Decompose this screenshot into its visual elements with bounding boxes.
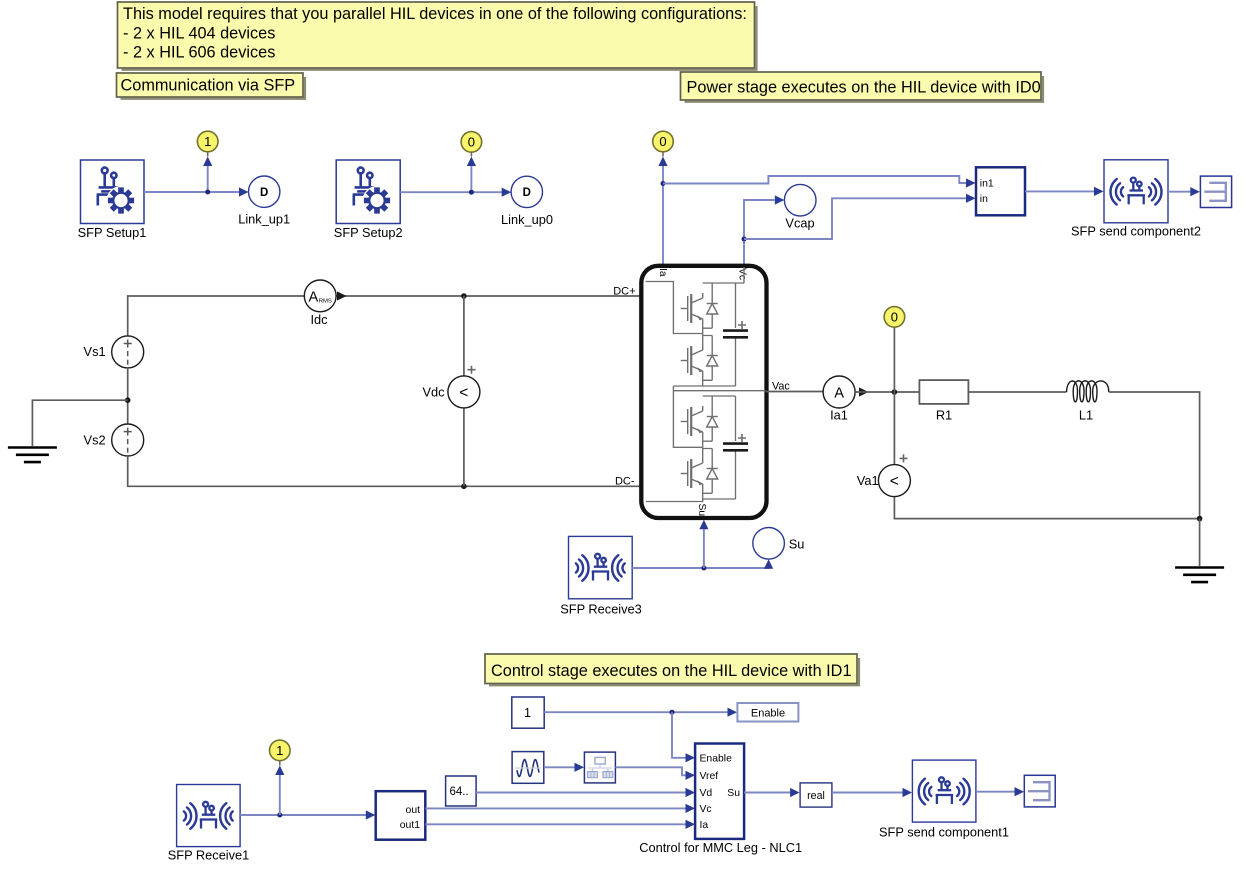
junction dot bbox=[469, 190, 474, 195]
arrow into probe block bbox=[575, 763, 585, 772]
wire SFP Setup2 to Link_up0 bbox=[400, 191, 503, 193]
annotation note: model requirements bbox=[118, 2, 757, 70]
wire Ia1 to R1 bbox=[855, 391, 919, 393]
wire junction to bubble 0 bbox=[470, 165, 472, 192]
svg-text:Su: Su bbox=[789, 537, 805, 552]
arrow into out block bbox=[366, 810, 376, 819]
wire 64.. to Vd pin bbox=[476, 792, 686, 794]
svg-text:L1: L1 bbox=[1079, 408, 1093, 423]
wire bottom DC- rail bbox=[128, 456, 642, 486]
block SFP Setup2 bbox=[334, 160, 403, 240]
arrow up into Su pin bbox=[699, 520, 708, 530]
block SFP Receive3 bbox=[560, 536, 642, 616]
svg-text:1: 1 bbox=[276, 743, 283, 758]
resistor R1 bbox=[919, 380, 968, 422]
terminator block bbox=[1200, 176, 1231, 207]
svg-text:Idc: Idc bbox=[310, 312, 328, 327]
wire SFP Receive3 to Su bbox=[632, 567, 768, 568]
svg-text:Ia: Ia bbox=[700, 820, 709, 831]
wire junction up to bubble 1 bbox=[279, 774, 281, 815]
arrow into Enable pin bbox=[686, 753, 696, 762]
device id bubble 0 bbox=[461, 132, 482, 153]
svg-text:Vs2: Vs2 bbox=[84, 432, 106, 447]
cast tag real bbox=[800, 783, 832, 807]
svg-text:1: 1 bbox=[204, 134, 211, 149]
wire out1 to Ia pin bbox=[425, 823, 686, 825]
bubble tail bbox=[279, 760, 281, 765]
sine generator block bbox=[512, 752, 544, 784]
wire R1 to L1 bbox=[968, 391, 1066, 393]
svg-text:Va1: Va1 bbox=[857, 473, 879, 488]
block SFP send component2 bbox=[1071, 160, 1201, 239]
svg-text:R1: R1 bbox=[936, 408, 952, 423]
junction dot node Ia bbox=[661, 181, 666, 186]
probe Vcap bbox=[784, 184, 816, 216]
arrow into terminator bbox=[1015, 787, 1025, 796]
svg-text:Vcap: Vcap bbox=[785, 216, 814, 231]
svg-text:Vd: Vd bbox=[700, 788, 713, 799]
wire to ground 1 bbox=[32, 400, 127, 446]
junction dot top rail / Vdc bbox=[461, 293, 467, 299]
wire down to ground 2 bbox=[1199, 519, 1201, 566]
svg-text:SFP Setup2: SFP Setup2 bbox=[334, 225, 403, 240]
probe Su bbox=[753, 528, 785, 560]
wire constant to Enable tag bbox=[544, 711, 728, 713]
svg-text:A: A bbox=[834, 385, 844, 401]
svg-text:Link_up1: Link_up1 bbox=[238, 212, 290, 227]
wire real to SFP send component1 bbox=[832, 792, 904, 794]
arrow into in bbox=[966, 194, 976, 203]
svg-text:Link_up0: Link_up0 bbox=[501, 212, 553, 227]
probe Link_up1 bbox=[249, 176, 280, 207]
block SFP Receive1 bbox=[168, 785, 250, 863]
ground 2 bbox=[1175, 568, 1224, 583]
junction dot bottom rail / Vdc bbox=[461, 484, 467, 490]
svg-text:Control stage executes on the: Control stage executes on the HIL device… bbox=[491, 662, 852, 680]
voltage source Vs1 bbox=[84, 336, 144, 368]
arrow into Link_up0 bbox=[502, 188, 512, 197]
wire in-block to SFP send component2 bbox=[1025, 190, 1095, 192]
wire SFP send component2 to terminator bbox=[1168, 191, 1191, 193]
wire Vs1 to Vs2 bbox=[127, 368, 129, 424]
wire Vac stub bbox=[766, 391, 823, 393]
ammeter Ia1 bbox=[823, 376, 855, 423]
svg-text:SFP Receive3: SFP Receive3 bbox=[560, 602, 642, 617]
wire junction up to bubble 0 bbox=[893, 327, 895, 392]
wire Su to real tag bbox=[744, 792, 791, 794]
arrow into Enable tag bbox=[728, 708, 738, 717]
interior Vac node line bbox=[673, 390, 765, 392]
svg-text:1: 1 bbox=[524, 706, 531, 720]
arrow into real tag bbox=[790, 788, 800, 797]
bubble tail bbox=[662, 152, 664, 157]
wire sine to probe block bbox=[544, 766, 576, 768]
svg-text:- 2 x HIL 404 devices: - 2 x HIL 404 devices bbox=[123, 24, 275, 42]
junction dot bbox=[277, 813, 282, 818]
interior wire Vc to SM1 cap bbox=[736, 267, 745, 283]
arrow into terminator bbox=[1190, 187, 1200, 196]
ammeter Idc bbox=[304, 280, 336, 327]
voltmeter Va1 bbox=[857, 454, 911, 496]
bus join block in1/in bbox=[976, 167, 1025, 215]
wire SFP Receive1 to out block bbox=[240, 814, 367, 816]
svg-text:Ia1: Ia1 bbox=[830, 408, 848, 423]
arrow into Ia pin bbox=[686, 820, 696, 829]
arrow up into bubble 1 bbox=[203, 157, 212, 167]
arrow into SFP send component2 bbox=[1094, 187, 1104, 196]
arrow up into bubble 0 bbox=[467, 157, 476, 167]
interior wire Ia entry to SM1 midpoint bbox=[646, 282, 703, 334]
svg-text:in: in bbox=[980, 194, 988, 205]
junction dot bbox=[701, 566, 706, 571]
svg-text:Control for MMC Leg - NLC1: Control for MMC Leg - NLC1 bbox=[639, 840, 802, 855]
bubble tail bbox=[207, 151, 209, 157]
svg-text:<: < bbox=[890, 473, 899, 490]
wire L1 to right leg bbox=[1109, 392, 1200, 519]
annotation note: Control stage bbox=[485, 654, 859, 685]
block SFP send component1 bbox=[879, 760, 1009, 839]
wire out to Vc pin bbox=[425, 807, 686, 809]
device id bubble 0 (ac node) bbox=[884, 307, 905, 328]
junction dot bbox=[205, 190, 210, 195]
ammeter arrow black bbox=[337, 291, 347, 300]
wire top DC+ rail bbox=[128, 296, 305, 336]
model probe block bbox=[584, 752, 615, 783]
voltage source Vs2 bbox=[84, 424, 144, 456]
svg-text:64..: 64.. bbox=[450, 786, 469, 798]
probe Link_up0 bbox=[511, 176, 542, 207]
svg-text:SFP Setup1: SFP Setup1 bbox=[78, 225, 147, 240]
demux block out/out1 bbox=[376, 791, 426, 840]
interior wire left bus to SM2 midpoint bbox=[673, 386, 702, 447]
svg-text:Su: Su bbox=[696, 504, 707, 517]
wire Vc to in bbox=[744, 198, 967, 239]
svg-text:This model requires that you p: This model requires that you parallel HI… bbox=[123, 5, 747, 23]
wire Va1 branch bbox=[894, 392, 1199, 519]
svg-text:0: 0 bbox=[468, 134, 475, 149]
goto tag Enable bbox=[737, 703, 798, 722]
arrow into Vd pin bbox=[686, 788, 696, 797]
interior wire SM1 bottom rail extension bbox=[673, 385, 702, 387]
svg-text:SFP send component1: SFP send component1 bbox=[879, 825, 1009, 840]
arrow into Vref pin bbox=[686, 771, 696, 780]
interior wire SM2 bottom to Su line bbox=[646, 499, 703, 502]
svg-text:SFP send component2: SFP send component2 bbox=[1071, 224, 1201, 239]
svg-text:SFP Receive1: SFP Receive1 bbox=[168, 848, 250, 863]
svg-text:- 2 x HIL 606 devices: - 2 x HIL 606 devices bbox=[123, 44, 275, 62]
svg-text:<: < bbox=[459, 385, 468, 402]
svg-text:Vdc: Vdc bbox=[422, 384, 445, 399]
arrow into Vcap bbox=[775, 195, 785, 204]
ground 1 bbox=[8, 448, 57, 463]
bubble tail bbox=[470, 151, 472, 156]
terminator block bbox=[1024, 775, 1055, 807]
submodule SM1 bbox=[681, 283, 748, 386]
arrow up into bubble 1 bbox=[275, 766, 284, 776]
junction dot node a bbox=[892, 389, 898, 395]
submodule SM2 bbox=[681, 396, 748, 499]
wire Ia to in1 bbox=[663, 176, 967, 184]
svg-text:Enable: Enable bbox=[751, 707, 785, 719]
wire Ia pin up to bubble 0 bbox=[662, 165, 664, 266]
wire SFP send component1 to terminator bbox=[976, 791, 1016, 793]
annotation note: Power stage bbox=[681, 72, 1044, 102]
svg-text:0: 0 bbox=[659, 134, 666, 149]
junction dot bbox=[670, 710, 675, 715]
svg-text:DC-: DC- bbox=[615, 475, 635, 487]
device id bubble 1 bbox=[197, 131, 218, 152]
svg-text:Vc: Vc bbox=[700, 804, 712, 815]
wire up to Su probe bbox=[768, 567, 770, 568]
device id bubble 1 bbox=[270, 740, 291, 761]
ammeter Ia1 output arrow bbox=[859, 387, 869, 396]
wire Vc pin up to Vcap bbox=[744, 200, 775, 266]
svg-text:Vc: Vc bbox=[737, 268, 748, 280]
annotation note: Communication via SFP bbox=[117, 73, 306, 99]
svg-text:real: real bbox=[807, 790, 825, 802]
MMC leg block body bbox=[641, 266, 766, 518]
control block Control for MMC Leg - NLC1 bbox=[639, 744, 802, 856]
svg-text:Ia: Ia bbox=[657, 268, 668, 277]
svg-text:out1: out1 bbox=[400, 820, 420, 831]
wire probe to Vref pin bbox=[615, 767, 686, 775]
wire junction up to Su pin bbox=[703, 528, 705, 568]
svg-text:0: 0 bbox=[891, 309, 898, 324]
arrow into Link_up1 bbox=[239, 187, 249, 196]
constant block 1 bbox=[512, 697, 544, 728]
svg-text:Su: Su bbox=[727, 788, 740, 799]
arrow into Vc pin bbox=[686, 804, 696, 813]
device id bubble 0 bbox=[653, 131, 674, 152]
svg-text:out: out bbox=[406, 805, 421, 816]
svg-text:A: A bbox=[309, 290, 319, 306]
svg-text:RMS: RMS bbox=[319, 299, 332, 305]
wire junction down to Enable pin bbox=[672, 712, 687, 758]
svg-text:Power stage executes on the HI: Power stage executes on the HIL device w… bbox=[687, 78, 1041, 96]
block SFP Setup1 bbox=[78, 160, 147, 240]
arrow into in1 bbox=[966, 178, 976, 187]
voltmeter Vdc bbox=[422, 366, 479, 408]
wire Vdc branch bbox=[463, 296, 465, 486]
svg-text:Vs1: Vs1 bbox=[84, 344, 106, 359]
inductor L1 bbox=[1067, 381, 1109, 423]
arrow up into bubble 0 bbox=[658, 157, 667, 167]
constant block 64.. bbox=[446, 776, 477, 806]
svg-text:Vac: Vac bbox=[772, 381, 790, 393]
junction dot right bottom bbox=[1197, 516, 1203, 522]
junction dot mid sources bbox=[125, 397, 131, 403]
wire SFP Setup1 to Link_up1 bbox=[144, 191, 240, 193]
junction dot node Vc bbox=[742, 237, 747, 242]
wire junction to bubble 1 bbox=[207, 165, 209, 192]
svg-text:Enable: Enable bbox=[700, 753, 733, 764]
svg-text:in1: in1 bbox=[980, 179, 994, 190]
arrow up into Su probe bbox=[764, 559, 773, 569]
svg-text:Vref: Vref bbox=[700, 771, 719, 782]
svg-text:Communication via SFP: Communication via SFP bbox=[121, 77, 296, 95]
arrow into SFP send component1 bbox=[903, 788, 913, 797]
svg-text:DC+: DC+ bbox=[613, 286, 635, 298]
